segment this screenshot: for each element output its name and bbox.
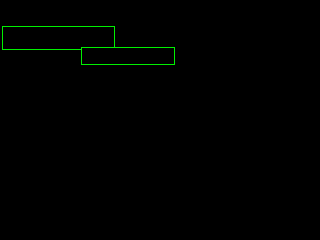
window outline 1 (back rectangle) (2, 26, 115, 50)
window outline 2 (front rectangle, overlaps bottom-right of rectangle 1) (81, 47, 175, 65)
